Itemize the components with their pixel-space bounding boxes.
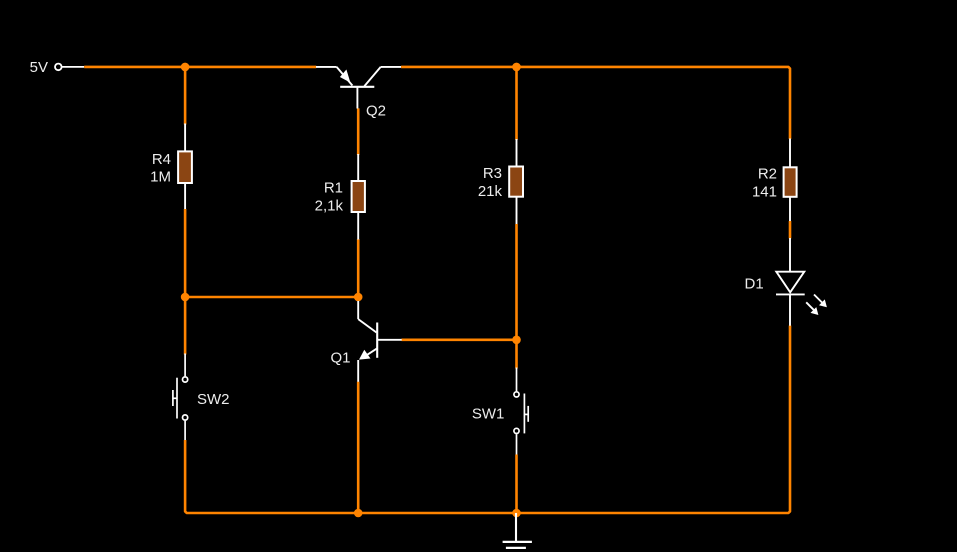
svg-text:R2: R2 bbox=[758, 165, 777, 182]
svg-text:R3: R3 bbox=[483, 165, 502, 182]
label R3 21k bbox=[478, 165, 503, 200]
svg-text:SW1: SW1 bbox=[472, 406, 505, 423]
svg-text:R1: R1 bbox=[324, 180, 343, 197]
ground bbox=[503, 513, 532, 548]
transistor Q1 bbox=[358, 301, 402, 382]
label R1 2,1k bbox=[315, 180, 344, 215]
wire: node B to node C bbox=[185, 296, 358, 299]
svg-text:2,1k: 2,1k bbox=[315, 197, 344, 214]
label R2 141 bbox=[752, 165, 777, 200]
wire: SW1 bottom to bottom rail bbox=[515, 455, 518, 514]
junction: node B (R4 / SW2 / wire to node C) bbox=[181, 293, 190, 302]
svg-text:Q1: Q1 bbox=[331, 350, 351, 367]
power terminal 5V bbox=[55, 64, 84, 71]
wire: R4 top lead bbox=[184, 67, 187, 125]
wire: Q1 base to node F bbox=[402, 338, 517, 341]
svg-text:Q2: Q2 bbox=[366, 103, 386, 120]
wire: SW1 top to node F bbox=[515, 340, 518, 369]
wire: Q2 collector rail to R2 (top right) bbox=[401, 67, 790, 139]
wire: Q2 base to R1 top bbox=[357, 108, 360, 155]
wire: 5V rail from terminal to Q2 emitter bbox=[84, 66, 316, 69]
label R4 1M bbox=[150, 151, 171, 186]
switch SW1 (pushbutton) bbox=[514, 368, 528, 456]
svg-text:5V: 5V bbox=[30, 59, 48, 76]
junction: 5V rail / R4 top bbox=[181, 63, 190, 72]
junction: bottom rail / ground / SW1 bbox=[512, 509, 521, 518]
wire: Q1 emitter to bottom rail bbox=[357, 382, 360, 513]
wire: R3 bottom to node F bbox=[515, 224, 518, 340]
junction: bottom rail / Q1 emitter bbox=[354, 509, 363, 518]
svg-text:1M: 1M bbox=[150, 169, 171, 186]
resistor R2 bbox=[784, 139, 797, 222]
junction: rail / R3 top bbox=[512, 63, 521, 72]
svg-text:D1: D1 bbox=[745, 275, 764, 292]
wire: R1 bottom to node C bbox=[357, 239, 360, 297]
resistor R4 bbox=[178, 124, 192, 210]
wire: R2 bottom to D1 bbox=[789, 221, 792, 239]
svg-text:SW2: SW2 bbox=[197, 391, 230, 408]
led D1 bbox=[776, 238, 827, 326]
resistor R1 bbox=[352, 154, 365, 240]
svg-text:R4: R4 bbox=[152, 151, 171, 168]
junction: node F (R3 / Q1 base / SW1) bbox=[512, 336, 521, 345]
transistor Q2 bbox=[316, 67, 401, 109]
switch SW2 (pushbutton) bbox=[173, 354, 188, 441]
svg-text:21k: 21k bbox=[478, 183, 503, 200]
resistor R3 bbox=[509, 139, 523, 225]
wire: SW2 bottom to bottom rail, left segment bbox=[185, 440, 358, 513]
wire: R4 bottom to node B bbox=[184, 209, 187, 297]
junction: node C (R1 bottom / Q1 collector) bbox=[354, 293, 363, 302]
svg-text:141: 141 bbox=[752, 183, 777, 200]
wire: node B to SW2 bbox=[184, 297, 187, 355]
wire: R3 top lead bbox=[515, 67, 518, 140]
wire: bottom rail center segment bbox=[358, 512, 516, 515]
wire: bottom rail right segment up to LED bbox=[517, 326, 791, 514]
